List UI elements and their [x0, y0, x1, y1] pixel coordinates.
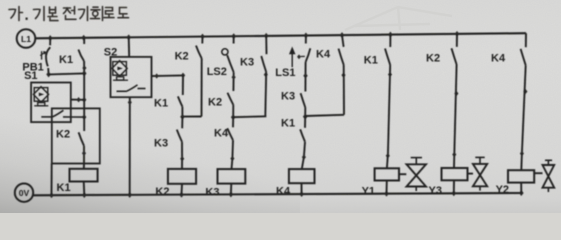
contact K4 blade (branch11) — [521, 49, 526, 65]
wire K4 contact stub (branch11) — [525, 33, 527, 47]
wire S1 box output to main line — [71, 99, 84, 101]
wire K2box contact to box bottom — [83, 146, 85, 164]
LS2 roller — [222, 49, 228, 55]
wire down to S1 output node — [83, 73, 85, 99]
terminal dot S1 output wire — [77, 97, 81, 102]
wire into K2 box — [83, 117, 85, 131]
wire K3 contact to coil — [181, 142, 183, 159]
junction top rail x=390.4 — [388, 32, 393, 38]
wire K4 coil to bottom rail — [301, 183, 303, 194]
svg-text:K4: K4 — [316, 49, 331, 61]
svg-text:K4: K4 — [491, 53, 506, 65]
junction top rail x=128.7 — [126, 34, 131, 40]
wire K4 branch down — [343, 65, 345, 115]
wire K1 contact top stub — [83, 38, 85, 44]
wire K1 contact top lead — [182, 75, 184, 95]
wire to K3 contact branch7 — [304, 76, 306, 92]
wire K3 to join — [304, 108, 306, 117]
svg-text:Y2: Y2 — [496, 184, 509, 196]
wire Y2 coil to bottom rail — [520, 183, 522, 194]
wire to K1 contact branch7 — [304, 117, 306, 128]
sensor S2 contact (horizontal) — [117, 90, 127, 92]
wire into Y2 coil — [520, 154, 523, 171]
svg-text:L1: L1 — [21, 34, 31, 44]
terminal dot K1 contact — [82, 65, 86, 70]
wire into K2 coil — [181, 159, 183, 169]
wire PB1 top stub — [49, 38, 51, 45]
junction bottom rail x=129.7 — [127, 192, 132, 198]
contact K3 blade (branch7) — [301, 93, 306, 107]
wire K1 contact to node — [83, 61, 85, 73]
solenoid valve symbol Y3 — [468, 173, 474, 175]
contact K2 blade (branch5) — [228, 93, 234, 105]
terminal dot below K4 — [341, 72, 345, 77]
svg-text:S1: S1 — [24, 70, 37, 82]
svg-text:K2: K2 — [208, 97, 222, 109]
junction top rail x=202.5 — [200, 34, 205, 40]
limit switch LS2 blade — [227, 55, 234, 72]
wire top rail L1 — [35, 33, 526, 38]
junction bottom rail x=301.6 — [299, 191, 304, 197]
svg-text:K2: K2 — [175, 51, 189, 63]
solenoid valve symbol Y2 — [534, 172, 542, 174]
node S1 output — [82, 97, 86, 103]
junction top rail x=266.2 — [264, 33, 269, 39]
svg-text:Y3: Y3 — [429, 185, 442, 197]
wire K4 contact to coil — [231, 140, 234, 158]
svg-text:K3: K3 — [240, 57, 254, 69]
terminal dot above K2 coil — [180, 156, 184, 161]
coil K3 — [218, 169, 246, 184]
wire S2 output to K1 contact branch — [152, 74, 184, 77]
contact K2 blade — [196, 46, 202, 59]
relay contact box K2 — [52, 108, 100, 163]
node S1 contact lead — [82, 114, 86, 120]
wire K3 coil to bottom rail — [230, 184, 232, 195]
wire Y1 coil to bottom rail — [386, 181, 388, 195]
coil Y2 — [508, 170, 534, 182]
wire K2 contact stub (branch10) — [456, 34, 458, 47]
contact K2 (in K2 box) blade — [79, 132, 84, 146]
junction top rail x=342 — [340, 32, 345, 38]
wire to K1 coil — [83, 164, 85, 169]
node 0V (bottom rail terminal) — [15, 184, 33, 202]
svg-text:K3: K3 — [281, 91, 295, 103]
svg-text:K4: K4 — [214, 128, 229, 140]
svg-text:LS1: LS1 — [275, 67, 295, 79]
contact K1 blade (branch4) — [178, 96, 183, 106]
wire K2 contact stub — [201, 37, 203, 44]
sensor S1 output element — [38, 103, 45, 106]
wire join horizontal to K3 branch — [233, 115, 266, 118]
terminal dot below K1 — [388, 72, 392, 77]
sensor S2 symbol (square with diamond) — [113, 62, 127, 76]
junction top rail x=83.7 — [81, 35, 86, 41]
svg-text:K2: K2 — [56, 129, 70, 141]
wire LS1 stub — [305, 36, 307, 44]
junction top rail x=50.2 — [48, 35, 53, 41]
contact K1 blade (branch9) — [385, 49, 390, 65]
terminal dot above K4 coil — [302, 154, 306, 159]
LS1 actuator dash — [301, 55, 305, 57]
wire K4 to Y2 coil — [522, 65, 526, 153]
sensor S1 contact (horizontal) — [41, 116, 52, 118]
wire LS2 stub — [233, 36, 235, 43]
contact K4 blade (branch5) — [227, 128, 233, 140]
svg-text:K4: K4 — [276, 186, 291, 198]
LS1 actuator arrow — [291, 53, 293, 68]
wire down to S1 contact lead — [83, 100, 85, 117]
contact K3 blade (branch6) — [261, 56, 266, 72]
wire S2 box bottom to 0V rail — [129, 97, 131, 194]
terminal dot below LS2 — [232, 75, 236, 80]
coil K4 — [289, 169, 315, 183]
wire S1 contact to main line — [71, 116, 84, 118]
title text (Korean, hand-drawn strokes) — [9, 7, 129, 21]
wire K3 contact stub — [265, 36, 267, 54]
junction bottom rail x=84.3 — [82, 192, 87, 198]
svg-text:K1: K1 — [57, 182, 71, 194]
contact K4 blade (branch8) — [339, 49, 344, 65]
node top of K1 contact branch — [181, 73, 185, 79]
junction bottom rail x=230.9 — [229, 191, 234, 197]
wire PB1 bottom lead — [47, 68, 49, 74]
svg-text:K1: K1 — [281, 118, 295, 130]
wire bottom rail 0V — [33, 193, 523, 195]
wire into K3 coil — [231, 159, 234, 170]
wire to K4 contact — [232, 117, 234, 127]
svg-text:Y1: Y1 — [362, 185, 375, 197]
contact K3 blade (branch4) — [177, 130, 182, 142]
wire into Y3 coil — [453, 155, 455, 169]
svg-text:LS2: LS2 — [207, 66, 227, 78]
node L1 (left rail terminal) — [17, 29, 36, 48]
pushbutton PB1 contact blade — [46, 47, 50, 66]
wire K2 box to bottom rail — [51, 164, 53, 195]
terminal dot branch11 — [523, 89, 527, 94]
wire into Y1 coil — [386, 156, 389, 169]
wire K2 to join — [232, 105, 234, 117]
junction top rail x=305.9 — [304, 33, 309, 39]
terminal dot below K3 — [264, 72, 268, 77]
terminal dot above K3 coil — [230, 156, 234, 161]
coil K1 — [70, 169, 98, 182]
svg-text:K1: K1 — [59, 54, 73, 66]
wire K2 branch corner to junction — [183, 116, 202, 118]
sensor S2 output element — [117, 77, 124, 80]
junction bottom rail x=453.8 — [451, 190, 456, 196]
wire K3 branch down — [264, 72, 267, 116]
svg-text:K2: K2 — [155, 186, 169, 198]
wire PB1-K1 node link — [49, 73, 85, 74]
wire rail to S2 box — [128, 37, 131, 57]
limit switch LS1 blade — [306, 48, 311, 62]
wire to K3 contact — [181, 117, 183, 129]
wire Y3 coil to bottom rail — [453, 180, 455, 193]
svg-text:0V: 0V — [19, 188, 30, 198]
node PB1/K1 junction — [46, 71, 51, 77]
svg-text:K1: K1 — [364, 55, 378, 67]
terminal dot below LS1 — [303, 73, 307, 79]
terminal dot above Y1 coil — [386, 153, 390, 158]
terminal dot above Y3 coil — [452, 152, 456, 157]
terminal dot branch10 — [454, 91, 458, 96]
node branch4 join — [180, 114, 185, 120]
wire K1 contact to junction — [181, 107, 183, 117]
wire K1 to K4 coil — [304, 142, 305, 157]
solenoid valve symbol Y1 — [399, 173, 406, 175]
junction bottom rail x=386.5 — [384, 191, 389, 197]
wire K2 contact down — [201, 58, 203, 116]
LS1 actuator dot — [297, 54, 301, 59]
sensor S1 symbol (square with diamond) — [34, 88, 48, 102]
contact K2 blade (branch10) — [452, 48, 457, 64]
wire LS1 to K3 — [305, 62, 307, 76]
svg-text:K1: K1 — [154, 98, 168, 110]
wire K1 coil to bottom rail — [83, 182, 86, 195]
wire K4 contact stub — [342, 35, 344, 47]
junction bottom rail x=51.5 — [49, 192, 54, 198]
svg-text:K3: K3 — [205, 187, 219, 199]
terminal dot below S2 box — [128, 100, 132, 105]
junction bottom rail x=181.5 — [179, 192, 184, 198]
node branch5 join — [231, 114, 236, 120]
wire LS2 to K2 contact — [232, 72, 234, 91]
svg-text:K2: K2 — [426, 53, 440, 65]
coil Y1 — [375, 168, 399, 180]
terminal dot in K2 box — [82, 151, 86, 156]
coil K2 — [168, 169, 196, 184]
contact K1 (holding) blade — [78, 50, 84, 61]
PB1 manual actuator — [41, 51, 43, 59]
wire into K4 coil — [302, 157, 304, 169]
wire K2 coil to bottom rail — [181, 184, 184, 195]
wire K4 branch corner to branch7 join — [305, 115, 344, 116]
sensor box S1 — [31, 83, 71, 123]
junction top rail x=457 — [455, 31, 460, 37]
node K1 lower — [82, 70, 87, 76]
svg-text:K3: K3 — [154, 138, 168, 150]
node branch7 join — [303, 114, 308, 120]
coil Y3 — [442, 168, 468, 180]
contact K1 blade (branch7) — [300, 129, 305, 142]
wire K1 to Y1 coil — [388, 65, 390, 156]
terminal dot S2 right output — [155, 73, 159, 78]
junction top rail x=233.7 — [231, 33, 236, 39]
sensor box S2 — [111, 57, 152, 97]
junction bottom rail x=521.3 — [519, 190, 524, 196]
terminal dot above Y2 coil — [520, 151, 524, 156]
wire K1 contact stub (branch9) — [389, 35, 391, 47]
wire K2 to Y3 coil — [454, 65, 456, 155]
